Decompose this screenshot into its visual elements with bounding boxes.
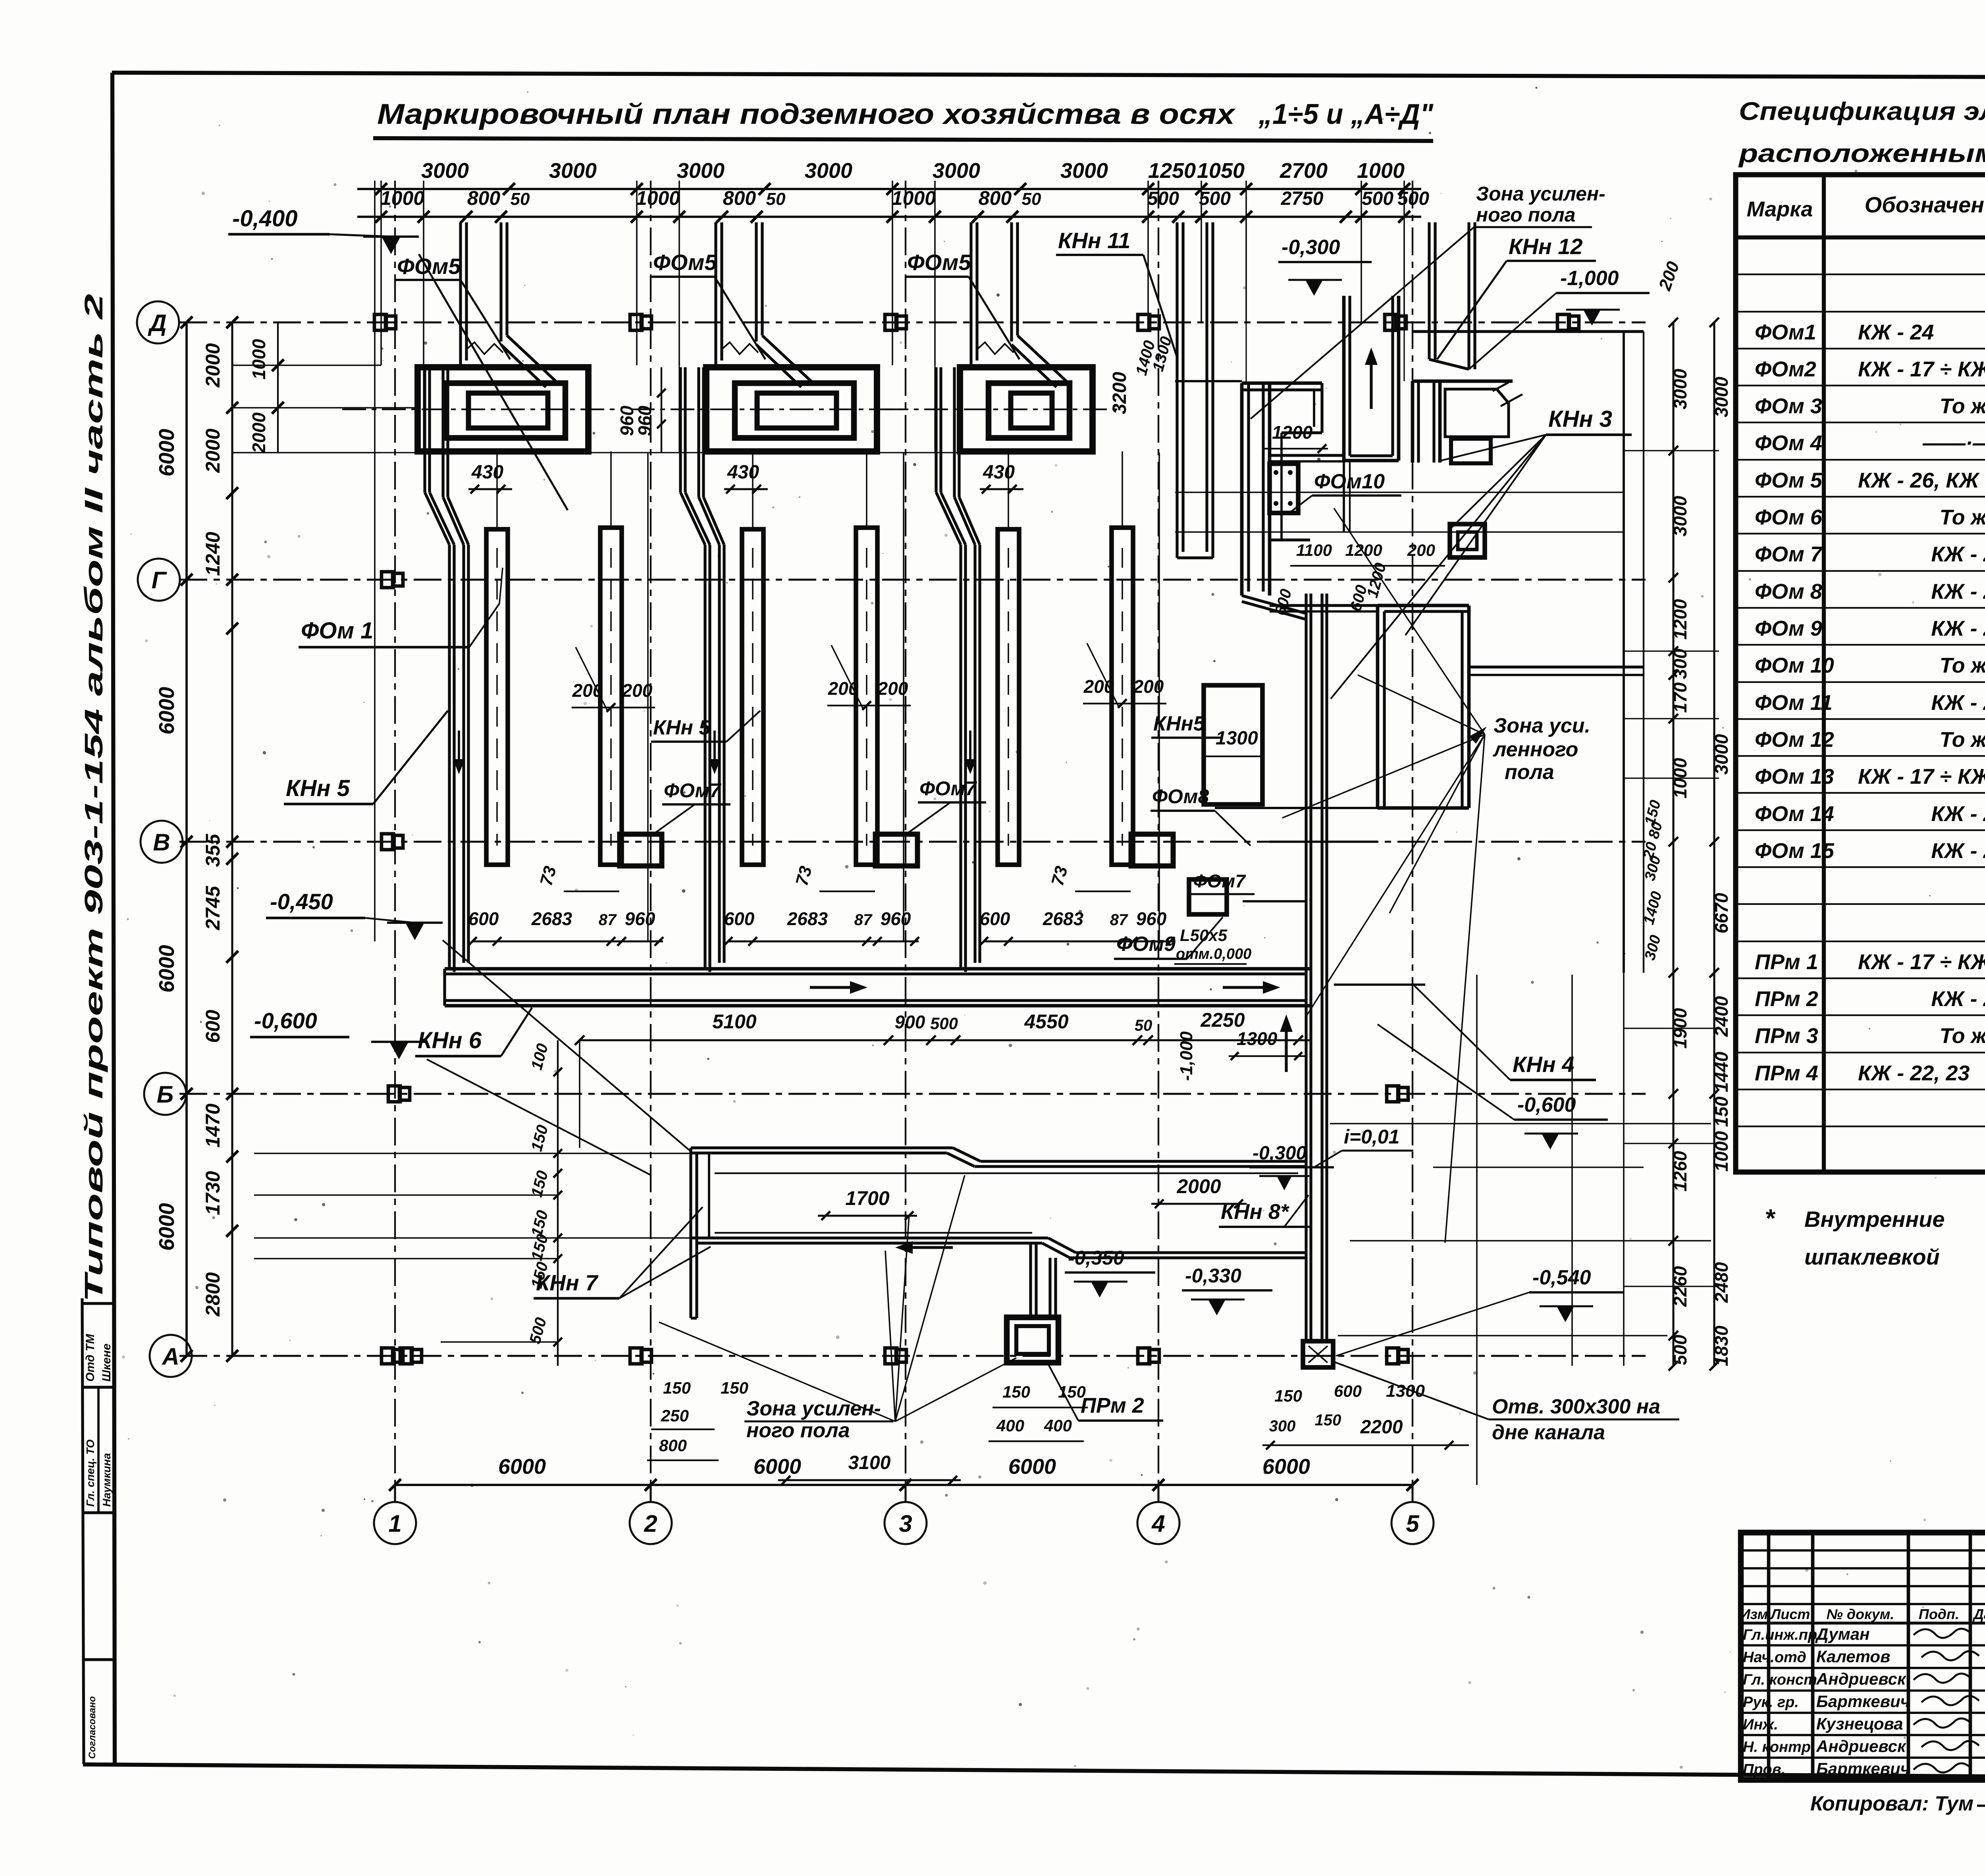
svg-text:КЖ - 25: КЖ - 25 <box>1931 839 1985 863</box>
svg-text:Маркировочный план подземног: Маркировочный план подземного хозяйства … <box>377 98 1236 130</box>
svg-text:800: 800 <box>467 187 501 209</box>
column marks on axis В <box>382 834 403 850</box>
svg-text:КНн 3: КНн 3 <box>1548 406 1612 432</box>
svg-text:2000: 2000 <box>202 428 224 473</box>
svg-text:50: 50 <box>511 189 530 209</box>
channel КНн5 bay 3 main vertical <box>959 545 962 969</box>
dim row 600 2683 87 960 bay 3 <box>984 940 1174 942</box>
svg-text:800: 800 <box>979 187 1012 209</box>
svg-text:87: 87 <box>599 911 617 929</box>
unit 3 centre line <box>885 409 1122 410</box>
svg-text:ФОм 13: ФОм 13 <box>1755 765 1834 789</box>
pad ФОм10 <box>1270 464 1298 513</box>
svg-text:200: 200 <box>828 678 859 699</box>
boiler foundation ФОм5 unit 3 outer <box>960 367 1093 451</box>
svg-text:500: 500 <box>930 1014 958 1033</box>
right rooms: door block <box>1411 381 1415 463</box>
right complex: wall y1150 <box>1269 454 1344 457</box>
svg-text:ПРм 2: ПРм 2 <box>1081 1394 1144 1417</box>
pad ФОм7 bay 1 <box>620 834 662 866</box>
svg-text:Наумкина: Наумкина <box>100 1453 113 1507</box>
svg-text:ФОм9: ФОм9 <box>1116 933 1176 956</box>
КНн12 channel top right <box>1428 222 1430 359</box>
axis circle 1 <box>374 1502 416 1544</box>
svg-text:Зона усилен-: Зона усилен- <box>746 1397 881 1420</box>
svg-text:2800: 2800 <box>202 1272 224 1317</box>
axis 5 vertical <box>1412 181 1413 1486</box>
svg-text:-0,600: -0,600 <box>1517 1093 1576 1116</box>
right complex: stepped walls upper <box>1320 383 1323 433</box>
svg-text:960: 960 <box>634 405 655 436</box>
svg-text:3100: 3100 <box>848 1452 891 1473</box>
svg-text:-0,300: -0,300 <box>1282 236 1340 259</box>
svg-text:200: 200 <box>572 680 603 701</box>
bottom dimension line 6000 x4 <box>395 1484 1413 1486</box>
svg-text:1240: 1240 <box>202 532 224 576</box>
svg-text:ФОм 9: ФОм 9 <box>1755 617 1822 640</box>
svg-text:5: 5 <box>1406 1510 1420 1537</box>
svg-text:ПРм 4: ПРм 4 <box>1755 1061 1818 1085</box>
svg-text:-0,400: -0,400 <box>232 206 297 231</box>
left inner sub-dims 1000/2000 <box>277 322 279 453</box>
svg-text:3000: 3000 <box>549 159 597 183</box>
svg-text:500: 500 <box>1147 188 1179 209</box>
flow arrow down bay 2 <box>713 731 716 768</box>
svg-text:-0,600: -0,600 <box>254 1008 317 1033</box>
right complex: thick left wall <box>1240 383 1244 596</box>
svg-text:-0,300: -0,300 <box>1253 1143 1307 1164</box>
svg-text:КНн 5: КНн 5 <box>286 775 350 801</box>
svg-text:150: 150 <box>1058 1382 1086 1401</box>
svg-text:87: 87 <box>1110 911 1128 929</box>
svg-text:Калетов: Калетов <box>1816 1647 1890 1666</box>
svg-text:„1÷5 и „А÷Д": „1÷5 и „А÷Д" <box>1258 98 1434 130</box>
svg-text:ФОм 6: ФОм 6 <box>1755 505 1823 529</box>
svg-text:КЖ - 17 ÷ КЖ - 20: КЖ - 17 ÷ КЖ - 20 <box>1858 357 1985 381</box>
svg-text:1700: 1700 <box>845 1187 889 1209</box>
foundation strip B bay 1 <box>600 528 622 865</box>
svg-text:Б: Б <box>157 1081 173 1108</box>
lower loop left leg <box>689 1148 692 1318</box>
svg-text:-0,540: -0,540 <box>1532 1266 1591 1289</box>
column marks on axis Б <box>388 1086 410 1102</box>
svg-text:Подп.: Подп. <box>1919 1606 1959 1622</box>
thin horizontals bottom right <box>1330 1123 1711 1124</box>
lower loop bottom run <box>691 1236 1048 1239</box>
channel КНн5 bay 3 upper vertical <box>935 367 937 492</box>
channel КНн5 bay 1 jog <box>425 492 449 545</box>
svg-text:600: 600 <box>468 908 499 929</box>
axis circle 4 <box>1137 1502 1179 1544</box>
sheet frame bottom <box>83 1764 1985 1780</box>
axis 3 vertical <box>905 181 906 1486</box>
svg-text:1000: 1000 <box>636 187 680 209</box>
axis 1 vertical <box>394 181 396 1486</box>
svg-text:пола: пола <box>1505 761 1554 784</box>
svg-text:3000: 3000 <box>933 159 980 183</box>
flow arrow down bay 1 <box>458 731 460 768</box>
svg-text:*: * <box>1765 1204 1776 1232</box>
title block top small grid rows <box>1741 1549 1985 1552</box>
right complex: top wall <box>1242 382 1322 385</box>
svg-text:Кузнецова: Кузнецова <box>1816 1714 1903 1733</box>
right complex: mid walls <box>1270 538 1310 541</box>
axis circle Д <box>137 301 179 343</box>
axis circle 5 <box>1391 1502 1434 1544</box>
КНн11 vertical channel below top <box>1176 222 1178 558</box>
svg-text:1000: 1000 <box>249 339 269 380</box>
svg-text:L50х5: L50х5 <box>1180 926 1228 945</box>
zone hatch marks top right rooms <box>1493 382 1522 406</box>
svg-text:То же: То же <box>1940 505 1985 529</box>
svg-text:430: 430 <box>727 462 759 483</box>
svg-text:ФОм7: ФОм7 <box>919 777 977 800</box>
svg-text:КНн 8*: КНн 8* <box>1221 1200 1290 1224</box>
svg-text:1830: 1830 <box>1711 1325 1732 1366</box>
svg-text:50: 50 <box>1135 1017 1152 1034</box>
tall rect 1300 room <box>1204 685 1262 804</box>
svg-text:ПРм 3: ПРм 3 <box>1755 1024 1818 1048</box>
svg-text:ФОм5: ФОм5 <box>907 250 971 275</box>
svg-text:430: 430 <box>471 462 503 483</box>
svg-text:150: 150 <box>721 1379 748 1397</box>
svg-text:Нач.отд: Нач.отд <box>1743 1649 1806 1666</box>
svg-text:КЖ - 26, КЖ - 27: КЖ - 26, КЖ - 27 <box>1858 469 1985 492</box>
svg-text:3000: 3000 <box>1711 376 1732 417</box>
pit ПРм2 connector <box>1029 1243 1032 1317</box>
svg-text:1440: 1440 <box>1711 1051 1732 1092</box>
svg-text:Зона уси.: Зона уси. <box>1494 714 1590 737</box>
svg-text:ФОм 1: ФОм 1 <box>301 618 373 644</box>
svg-text:400: 400 <box>1044 1416 1072 1435</box>
left dimension chain inner <box>231 322 233 1356</box>
svg-text:2683: 2683 <box>787 908 828 929</box>
channel КНн5 bay 2 jog <box>680 492 705 545</box>
top dim extension verticals <box>380 181 382 365</box>
svg-text:2400: 2400 <box>1711 996 1732 1037</box>
svg-text:ПРм 2: ПРм 2 <box>1755 987 1818 1011</box>
svg-text:ФОм1: ФОм1 <box>1755 320 1816 344</box>
svg-text:Дата: Дата <box>1972 1606 1985 1622</box>
boiler foundation ФОм5 unit 1 middle <box>446 383 565 438</box>
svg-text:2200: 2200 <box>1360 1417 1403 1438</box>
svg-text:4550: 4550 <box>1024 1010 1068 1033</box>
svg-text:ФОм 8: ФОм 8 <box>1755 580 1822 603</box>
lower loop inner lines <box>715 1172 1298 1174</box>
extension verticals bay 3 <box>1008 451 1009 529</box>
title block outer <box>1741 1533 1985 1780</box>
axis circle 2 <box>630 1502 672 1544</box>
leaders from strips <box>576 647 607 711</box>
svg-text:5100: 5100 <box>712 1010 756 1033</box>
svg-text:ного пола: ного пола <box>1476 204 1576 226</box>
svg-text:КЖ - 24: КЖ - 24 <box>1931 542 1985 566</box>
column marks on axis Д <box>374 314 396 330</box>
right rooms: lower big room <box>1376 605 1380 808</box>
chimney channel above unit 2 <box>714 222 717 367</box>
right dimension chain inner <box>1672 322 1674 1366</box>
axis 4 vertical <box>1158 181 1159 1486</box>
svg-text:-1,000: -1,000 <box>1560 267 1619 290</box>
svg-text:расположенным на листах КЖ-: расположенным на листах КЖ-4÷6 <box>1738 139 1985 168</box>
svg-text:6000: 6000 <box>1262 1455 1310 1479</box>
svg-text:ФОм8: ФОм8 <box>1152 785 1209 808</box>
left small dim chain (100,150...) <box>557 1040 559 1366</box>
svg-text:6000: 6000 <box>155 1203 179 1251</box>
svg-text:КЖ - 25: КЖ - 25 <box>1931 580 1985 603</box>
svg-text:2000: 2000 <box>1176 1175 1221 1197</box>
top dimension line 2 <box>357 216 1421 218</box>
svg-text:ФОм5: ФОм5 <box>397 254 461 279</box>
thin horizontal dim lines left of loop <box>254 1153 691 1154</box>
svg-text:КЖ - 17 ÷ КЖ - 20: КЖ - 17 ÷ КЖ - 20 <box>1858 950 1985 974</box>
svg-text:Копировал: Тум: Копировал: Тум <box>1810 1792 1973 1815</box>
svg-text:КЖ - 21: КЖ - 21 <box>1931 987 1985 1011</box>
boiler foundation ФОм5 unit 1 outer <box>418 367 588 451</box>
left stamp strip outer line <box>82 1298 84 1764</box>
boiler foundation ФОм5 unit 2 outer <box>706 367 877 451</box>
svg-text:Внутренние: Внутренние <box>1804 1207 1945 1232</box>
svg-text:-0,450: -0,450 <box>270 889 333 914</box>
svg-text:Изм: Изм <box>1740 1606 1768 1622</box>
svg-text:600: 600 <box>980 908 1010 929</box>
svg-text:Барткевич: Барткевич <box>1816 1692 1910 1711</box>
svg-text:Марка: Марка <box>1747 197 1813 221</box>
foundation strip B bay 2 <box>856 528 877 865</box>
svg-text:КНн 12: КНн 12 <box>1509 234 1583 259</box>
svg-text:3000: 3000 <box>421 159 469 183</box>
svg-text:То же: То же <box>1940 654 1985 677</box>
svg-text:Н. контр: Н. контр <box>1743 1739 1811 1756</box>
foundation strip B bay 3 <box>1112 528 1133 865</box>
channel КНн5 bay 1 main vertical <box>448 545 451 969</box>
right complex misc horizontals <box>1175 492 1624 493</box>
svg-text:150: 150 <box>663 1379 691 1397</box>
spec table column lines <box>1822 175 1826 1172</box>
right dimension chain outer <box>1713 322 1715 1366</box>
axis circle В <box>141 821 183 863</box>
unit 1 centre line <box>342 409 618 410</box>
svg-text:2250: 2250 <box>1200 1009 1245 1031</box>
svg-text:——·——: ——·—— <box>1922 431 1985 455</box>
building right edge <box>1623 332 1625 973</box>
axis circle 3 <box>885 1502 927 1544</box>
svg-text:ФОм5: ФОм5 <box>653 250 717 275</box>
column marks on axis А <box>382 1348 403 1364</box>
svg-text:1200: 1200 <box>1345 541 1382 559</box>
svg-text:1730: 1730 <box>202 1171 224 1215</box>
boiler foundation ФОм5 unit 3 middle <box>989 383 1070 438</box>
dim row 600 2683 87 960 bay 2 <box>728 940 919 942</box>
svg-text:50: 50 <box>766 189 786 209</box>
axis 2 vertical <box>650 181 651 1486</box>
axis Г horizontal <box>179 578 1646 580</box>
svg-text:1200: 1200 <box>1670 599 1690 640</box>
svg-text:i=0,01: i=0,01 <box>1344 1126 1399 1148</box>
chimney channel above unit 3 <box>969 222 972 367</box>
svg-text:Обозначение: Обозначение <box>1865 192 1985 217</box>
foundation strip A bay 1 <box>486 529 508 865</box>
svg-text:КНн 5: КНн 5 <box>653 716 711 739</box>
channel КНн8 bottom box <box>1303 1341 1333 1367</box>
svg-text:Рук. гр.: Рук. гр. <box>1743 1694 1799 1711</box>
svg-text:150: 150 <box>1274 1386 1302 1405</box>
svg-text:2750: 2750 <box>1281 188 1324 209</box>
title underline <box>373 138 1433 141</box>
left dimension chain outer (6000) <box>185 322 188 1356</box>
svg-text:1: 1 <box>388 1510 401 1537</box>
svg-text:Барткевич: Барткевич <box>1816 1759 1910 1778</box>
left strip divider cells <box>83 1302 114 1305</box>
svg-text:1000: 1000 <box>1357 159 1405 183</box>
column marks on axis Г <box>382 572 403 588</box>
svg-text:Шкене: Шкене <box>100 1344 113 1382</box>
svg-text:ФОм 10: ФОм 10 <box>1755 654 1834 677</box>
svg-text:3000: 3000 <box>1060 159 1108 183</box>
channel КНн5 bay 1 upper vertical <box>423 367 426 492</box>
svg-text:Отд ТМ: Отд ТМ <box>84 1334 97 1382</box>
svg-text:2000: 2000 <box>249 412 269 453</box>
svg-text:дне канала: дне канала <box>1492 1421 1605 1444</box>
svg-text:Гл.инж.пр: Гл.инж.пр <box>1743 1627 1817 1643</box>
svg-text:1260: 1260 <box>1670 1151 1690 1192</box>
svg-text:200: 200 <box>1083 676 1114 697</box>
svg-text:150: 150 <box>1315 1411 1341 1429</box>
axis circle А <box>150 1335 192 1377</box>
svg-text:2700: 2700 <box>1280 159 1328 183</box>
svg-text:3000: 3000 <box>1711 734 1732 775</box>
svg-text:То же: То же <box>1940 728 1985 752</box>
svg-text:150: 150 <box>1002 1382 1030 1401</box>
svg-text:150: 150 <box>1711 1096 1732 1127</box>
foundation strip A bay 2 <box>742 529 763 865</box>
svg-text:1250: 1250 <box>1148 159 1196 183</box>
channel КНн5 bay 2 upper vertical <box>679 367 682 492</box>
svg-text:Андриевск: Андриевск <box>1816 1737 1906 1756</box>
title block left grid verticals <box>1767 1533 1771 1780</box>
channel КНн 8 vertical <box>1305 594 1307 1341</box>
extension verticals bay 1 <box>496 451 498 529</box>
svg-text:ФОм 3: ФОм 3 <box>1755 394 1822 418</box>
axis В horizontal <box>179 841 1646 843</box>
svg-text:2: 2 <box>644 1510 657 1537</box>
dim row 600 2683 87 960 bay 1 <box>472 940 663 942</box>
svg-text:ного пола: ного пола <box>746 1419 850 1442</box>
svg-text:ФОм2: ФОм2 <box>1755 357 1816 381</box>
units bottom tangent line <box>381 452 1096 453</box>
svg-text:900: 900 <box>895 1012 925 1032</box>
svg-text:№ докум.: № докум. <box>1827 1606 1894 1622</box>
svg-text:3000: 3000 <box>1670 368 1690 409</box>
spec table row lines <box>1736 274 1985 275</box>
svg-text:50: 50 <box>1022 189 1041 209</box>
svg-text:В: В <box>153 829 170 856</box>
svg-text:200: 200 <box>1133 676 1164 697</box>
dim line 5100/900/500/4550/50/2250 <box>580 1039 1310 1041</box>
svg-text:6000: 6000 <box>155 945 179 993</box>
svg-text:500: 500 <box>1397 188 1429 209</box>
svg-text:600: 600 <box>724 908 755 929</box>
svg-text:Инж.: Инж. <box>1743 1716 1778 1733</box>
svg-text:4: 4 <box>1151 1510 1165 1537</box>
lower loop top run <box>691 1146 953 1149</box>
axis А horizontal <box>179 1355 1646 1357</box>
svg-text:170: 170 <box>1670 682 1690 713</box>
svg-text:300: 300 <box>1670 648 1690 679</box>
svg-text:355: 355 <box>202 833 224 867</box>
svg-text:ФОм 15: ФОм 15 <box>1755 839 1835 863</box>
svg-text:КНн 11: КНн 11 <box>1058 228 1130 253</box>
channel КНн 6 horizontal main <box>445 967 1311 971</box>
svg-text:Спецификация элементов к марки: Спецификация элементов к маркировочным с… <box>1739 97 1985 125</box>
top dimension labels row 2 <box>375 211 387 223</box>
svg-text:400: 400 <box>996 1416 1024 1435</box>
svg-text:1300: 1300 <box>1216 728 1258 749</box>
axis Д horizontal <box>179 321 1646 323</box>
pad near ФОм9 <box>1189 879 1227 914</box>
svg-text:КНн 4: КНн 4 <box>1513 1052 1574 1077</box>
svg-text:ФОм 4: ФОм 4 <box>1755 431 1822 455</box>
svg-text:КЖ - 17 ÷ КЖ - 20: КЖ - 17 ÷ КЖ - 20 <box>1858 765 1985 789</box>
svg-text:1470: 1470 <box>202 1103 224 1147</box>
flow arrow left in loop <box>905 1246 953 1249</box>
extension verticals bay 2 <box>752 451 754 529</box>
boiler foundation ФОм5 unit 2 middle <box>735 383 854 438</box>
svg-text:КЖ - 24: КЖ - 24 <box>1931 802 1985 826</box>
svg-text:1100: 1100 <box>1296 541 1332 559</box>
svg-text:Лист: Лист <box>1770 1606 1810 1622</box>
svg-text:6000: 6000 <box>155 429 179 476</box>
sheet frame top <box>112 73 1985 78</box>
svg-text:ФОм 12: ФОм 12 <box>1755 728 1834 752</box>
svg-text:Гл. спец. ТО: Гл. спец. ТО <box>84 1439 96 1507</box>
svg-text:1000: 1000 <box>380 187 424 209</box>
svg-text:Г: Г <box>152 567 168 594</box>
svg-text:-1,000: -1,000 <box>1177 1031 1196 1081</box>
svg-text:6000: 6000 <box>155 687 179 735</box>
svg-text:ПРм 1: ПРм 1 <box>1755 950 1818 974</box>
svg-text:2683: 2683 <box>1043 908 1084 929</box>
svg-text:Гл. конст: Гл. конст <box>1743 1672 1817 1688</box>
svg-text:3: 3 <box>899 1510 912 1537</box>
svg-text:КЖ - 22, 23: КЖ - 22, 23 <box>1858 1061 1970 1085</box>
svg-text:300: 300 <box>1269 1417 1296 1435</box>
pad ФОм7 bay 3 <box>1131 834 1173 866</box>
flow arrow right in КНн6 #2 <box>1223 986 1270 989</box>
svg-text:ленного: ленного <box>1492 738 1578 761</box>
svg-text:800: 800 <box>723 187 756 209</box>
svg-text:1050: 1050 <box>1197 159 1245 183</box>
svg-text:87: 87 <box>854 911 873 929</box>
svg-text:отм.0,000: отм.0,000 <box>1176 946 1251 962</box>
svg-text:ФОм 14: ФОм 14 <box>1755 802 1834 826</box>
channel КНн5 bay 3 jog <box>936 492 961 545</box>
svg-text:ФОм7: ФОм7 <box>664 779 722 802</box>
svg-text:1000: 1000 <box>1711 1131 1732 1172</box>
right complex: wide vertical channel with arrow <box>1342 296 1346 461</box>
pit ПРм 2 <box>1007 1317 1058 1363</box>
svg-text:600: 600 <box>202 1010 224 1043</box>
thin verticals bottom right <box>1476 975 1478 1485</box>
spec table header bottom <box>1736 235 1985 239</box>
svg-text:600: 600 <box>1334 1382 1362 1400</box>
svg-text:Андриевск: Андриевск <box>1816 1670 1906 1688</box>
svg-text:500: 500 <box>1362 188 1393 209</box>
channel КНн5 bay 2 main vertical <box>703 545 706 969</box>
axis circle Г <box>138 559 180 601</box>
spec table outer border <box>1736 175 1985 1172</box>
svg-text:1300: 1300 <box>1237 1028 1278 1049</box>
